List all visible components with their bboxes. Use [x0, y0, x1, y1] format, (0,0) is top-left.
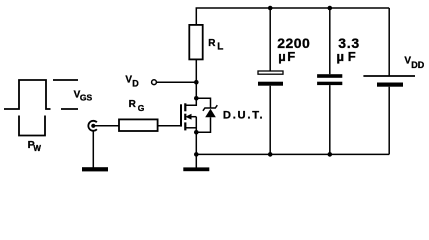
wire: drain to diode — [196, 98, 210, 108]
pulse waveform VGS — [4, 80, 51, 109]
wire: rail to battery — [388, 8, 390, 76]
VGS low-level dash — [61, 108, 78, 110]
wire: C2 to bottom rail — [329, 85, 331, 154]
channel segment bulk — [184, 114, 186, 120]
svg-text:DD: DD — [411, 60, 424, 70]
node: bottom rail junction C1 — [268, 152, 273, 157]
node: rail junction C2 top — [328, 6, 333, 11]
wire: top rail — [196, 8, 389, 25]
node: bottom rail junction C2 — [328, 152, 333, 157]
body diode (avalanche) — [196, 98, 217, 132]
battery positive plate (long thin) — [363, 75, 415, 77]
drain lead — [185, 100, 196, 105]
wire: diode to source — [196, 117, 210, 132]
capacitor C1 2200uF — [258, 8, 283, 154]
transistor D.U.T. (n-channel MOSFET) — [181, 100, 196, 132]
svg-text:R: R — [208, 38, 216, 49]
wire: rail to C1 — [269, 8, 271, 71]
node: source junction — [194, 130, 199, 135]
capacitor C2 3.3uF — [317, 8, 342, 154]
svg-text:F: F — [287, 49, 295, 64]
resistor RL — [189, 25, 202, 60]
node: bottom rail junction (source) — [194, 152, 199, 157]
svg-text:D.U.T.: D.U.T. — [223, 110, 265, 122]
svg-text:µ: µ — [278, 49, 286, 64]
wire: RL to drain vertical — [195, 59, 197, 98]
wire: rail to C2 — [329, 8, 331, 74]
C1 positive plate (hollow) — [258, 71, 283, 74]
battery VDD — [363, 8, 415, 154]
terminal VD (open circle) — [152, 80, 157, 85]
svg-text:µ: µ — [337, 49, 345, 64]
pulse width bracket — [19, 116, 45, 136]
svg-text:F: F — [348, 49, 356, 64]
svg-text:G: G — [138, 103, 145, 113]
ground (generator) — [82, 167, 108, 171]
node: VD junction — [194, 80, 199, 85]
resistor RG — [119, 119, 158, 131]
svg-text:R: R — [129, 99, 137, 110]
wire: substrate/source vertical — [195, 117, 197, 133]
wire: VD terminal to drain — [157, 81, 197, 83]
node: drain junction — [194, 96, 199, 101]
channel segment drain — [184, 103, 186, 111]
svg-text:D: D — [132, 79, 139, 89]
wire: source to ground — [195, 132, 197, 167]
wire: C1 to bottom rail — [269, 86, 271, 155]
battery negative plate (short thick) — [377, 83, 403, 87]
anode triangle — [205, 109, 216, 118]
wire: generator to RG — [93, 125, 119, 127]
signal generator connector — [88, 121, 97, 131]
substrate lead with arrow — [190, 116, 197, 118]
channel segment source — [184, 122, 186, 130]
wire: bottom rail — [196, 153, 389, 155]
source lead — [185, 127, 196, 129]
svg-text:L: L — [217, 42, 223, 53]
C2 plate top — [317, 74, 342, 78]
C2 plate bottom — [317, 82, 342, 85]
wire: RG to gate — [158, 125, 181, 127]
wire: generator to ground — [92, 131, 94, 167]
ground (source) — [183, 167, 209, 171]
svg-text:W: W — [33, 144, 41, 153]
C1 negative plate — [258, 82, 283, 86]
cathode bar with zener ticks — [203, 105, 217, 111]
node: rail junction C1 top — [268, 6, 273, 11]
wire: battery to bottom rail — [388, 87, 390, 155]
gate bar — [180, 104, 182, 126]
VGS high-level dash — [53, 79, 78, 81]
svg-text:GS: GS — [80, 93, 93, 103]
